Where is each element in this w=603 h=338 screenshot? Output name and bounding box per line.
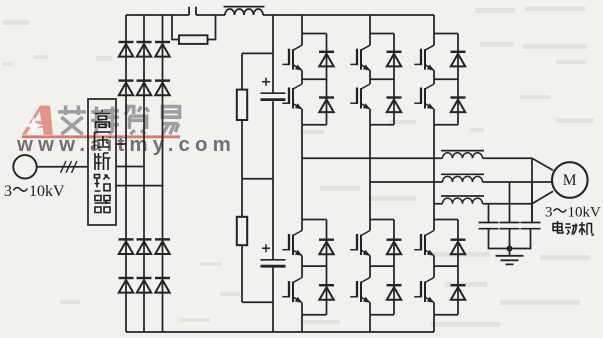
svg-text:M: M	[563, 172, 577, 189]
svg-text:10kV: 10kV	[29, 183, 65, 200]
svg-text:10kV: 10kV	[568, 205, 602, 221]
svg-text:3: 3	[545, 205, 553, 221]
svg-text:3: 3	[4, 183, 12, 200]
